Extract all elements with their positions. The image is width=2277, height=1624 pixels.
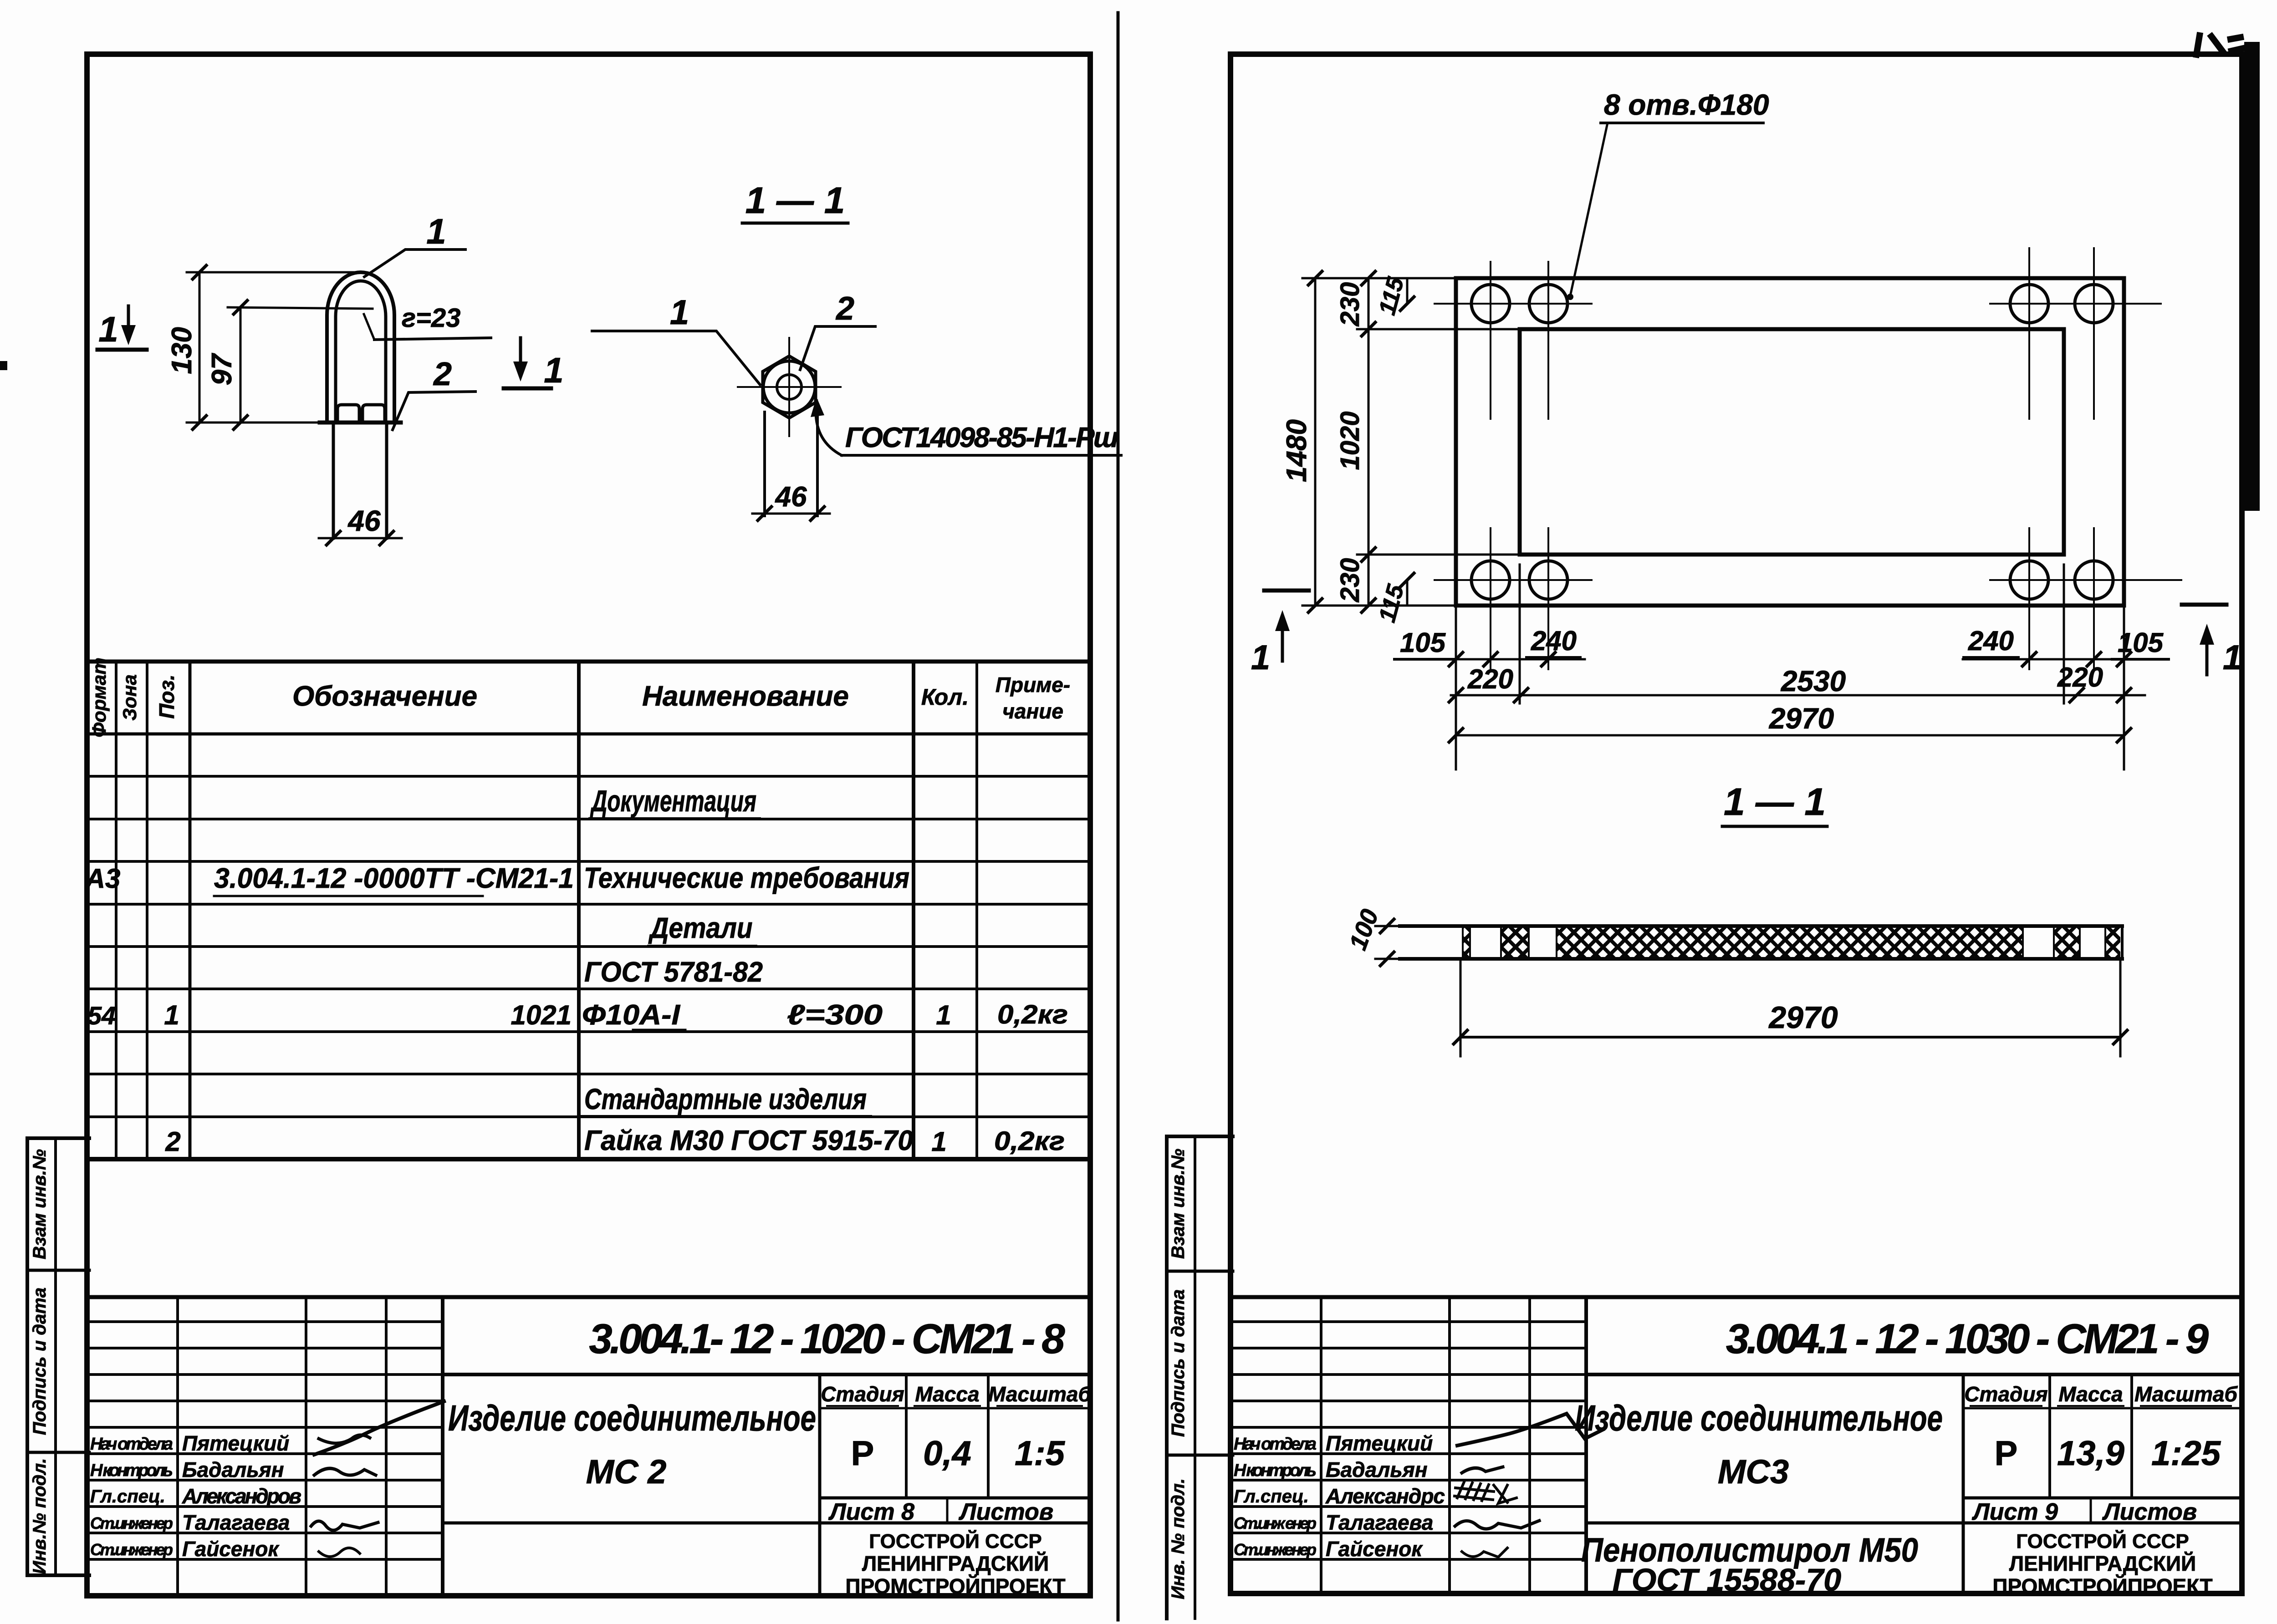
svg-text:Гл.спец.: Гл.спец.: [1234, 1487, 1309, 1507]
svg-text:2970: 2970: [1769, 702, 1834, 735]
svg-text:100: 100: [1344, 906, 1384, 953]
svg-text:Бадальян: Бадальян: [182, 1458, 284, 1481]
svg-text:Ф10А-I: Ф10А-I: [582, 999, 681, 1031]
svg-text:чание: чание: [1002, 699, 1063, 723]
svg-text:97: 97: [206, 353, 238, 385]
title block signature-area row lines: [87, 1322, 443, 1559]
svg-text:3.004.1- 12 - 1020 - СМ21 -: 3.004.1- 12 - 1020 - СМ21 - 8: [589, 1316, 1066, 1362]
svg-text:1: 1: [98, 309, 118, 349]
svg-text:115: 115: [1374, 581, 1409, 625]
nut pos.2 side view inside legs: [337, 405, 359, 423]
leader 1 (section): [592, 331, 760, 385]
svg-text:Лист 8: Лист 8: [828, 1499, 914, 1525]
svg-text:Масштаб: Масштаб: [2134, 1382, 2238, 1406]
svg-text:105: 105: [2118, 627, 2164, 658]
line under list row: [443, 1522, 1090, 1525]
svg-text:Инв. № подл.: Инв. № подл.: [1168, 1478, 1188, 1599]
signature-area row lines: [1230, 1322, 1586, 1559]
svg-text:МС 2: МС 2: [586, 1453, 667, 1491]
svg-text:Гайка М30 ГОСТ 5915-70: Гайка М30 ГОСТ 5915-70: [584, 1125, 913, 1156]
stadia header row bottom: [1963, 1407, 2242, 1410]
svg-text:Зона: Зона: [119, 674, 140, 720]
svg-text:220: 220: [2057, 662, 2103, 692]
part bottom line (thick): [320, 421, 401, 425]
svg-text:Р: Р: [1995, 1434, 2018, 1473]
column line: naimenovanie/kol: [912, 662, 915, 1159]
hole 6: [1529, 561, 1567, 599]
dim row 105/240 left: [1394, 658, 1585, 661]
hole 8: [2075, 561, 2113, 599]
svg-text:Наименование: Наименование: [642, 681, 849, 712]
hole 7: [2010, 561, 2048, 599]
page separator line between scanned sheets: [1117, 13, 1120, 1620]
svg-text:Нач отдела: Нач отдела: [1234, 1435, 1317, 1454]
U-part wire outer contour: [327, 272, 394, 423]
doc number cell bottom line: [443, 1373, 1090, 1376]
svg-text:Инв.№ подл.: Инв.№ подл.: [30, 1458, 50, 1574]
svg-text:Подпись и дата: Подпись и дата: [1168, 1289, 1188, 1437]
page number 175 fragment: [2196, 36, 2243, 55]
svg-text:Листов: Листов: [958, 1499, 1053, 1525]
svg-text:Обозначение: Обозначение: [292, 681, 477, 712]
svg-text:240: 240: [1968, 626, 2014, 656]
title block vertical: signature col: [385, 1297, 388, 1596]
svg-text:46: 46: [347, 504, 381, 537]
svg-text:Документация: Документация: [590, 784, 756, 818]
list row top line: [820, 1497, 1090, 1500]
signature squiggles: [1457, 1414, 1603, 1446]
dimension 46 (front view): [319, 537, 402, 540]
svg-text:0,2кг: 0,2кг: [997, 1000, 1068, 1029]
svg-text:Поз.: Поз.: [155, 674, 179, 718]
svg-text:1: 1: [670, 293, 689, 332]
svg-text:230: 230: [1335, 282, 1365, 327]
svg-text:2: 2: [835, 290, 854, 327]
svg-text:1021: 1021: [511, 1000, 572, 1030]
section mark 1 right (plan): [2182, 603, 2226, 607]
list row divider: [946, 1498, 949, 1523]
svg-text:230: 230: [1335, 558, 1365, 603]
margin block outer lines: [1165, 1136, 1169, 1619]
column line: poz/oboznachenie: [189, 662, 192, 1159]
bottom dim extension lines: [1456, 565, 2124, 769]
svg-text:Взам инв.№: Взам инв.№: [30, 1149, 50, 1259]
spec table header bottom: [87, 733, 1090, 736]
svg-text:Пятецкий: Пятецкий: [182, 1431, 289, 1455]
dimension 115 top: [1406, 278, 1409, 304]
svg-text:Ст.инженер: Ст.инженер: [90, 1540, 173, 1559]
svg-text:240: 240: [1531, 626, 1577, 656]
title block top border: [87, 1295, 1090, 1299]
nut hexagon front view: [763, 356, 816, 418]
svg-text:Детали: Детали: [648, 911, 752, 944]
stadia column lines: [818, 1375, 822, 1596]
section mark 1 right: [504, 387, 551, 391]
svg-text:0,2кг: 0,2кг: [994, 1126, 1065, 1156]
title block verticals: [1320, 1297, 1322, 1593]
svg-text:Технические требования: Технические требования: [584, 861, 909, 894]
list row top line: [1963, 1497, 2242, 1500]
svg-text:г=23: г=23: [402, 303, 460, 333]
dimension 1480: [1314, 278, 1317, 606]
svg-text:3.004.1 - 12 - 1030 - СМ21: 3.004.1 - 12 - 1030 - СМ21 - 9: [1726, 1316, 2209, 1362]
column line: format/zona: [115, 662, 117, 1159]
scan dark band at right page edge: [2244, 42, 2260, 511]
svg-text:220: 220: [1467, 664, 1513, 694]
dimension chain 230/1020/230: [1368, 278, 1370, 606]
dimension 130: [199, 272, 201, 423]
stadia header row bottom: [820, 1407, 1090, 1410]
nut center lines: [788, 338, 790, 436]
scan speck left margin: [0, 361, 7, 370]
svg-text:Приме-: Приме-: [996, 673, 1070, 697]
leader 2 (section): [800, 326, 875, 370]
hole edge ticks in section: [1463, 926, 2105, 959]
svg-text:2530: 2530: [1781, 665, 1846, 697]
svg-text:Александрс: Александрс: [1325, 1484, 1445, 1508]
svg-text:13,9: 13,9: [2057, 1434, 2124, 1473]
svg-text:Пятецкий: Пятецкий: [1326, 1431, 1433, 1455]
svg-text:Гайсенок: Гайсенок: [182, 1537, 280, 1561]
svg-text:1 — 1: 1 — 1: [745, 180, 845, 221]
svg-text:2: 2: [165, 1126, 180, 1157]
svg-text:ГОСТ 15588-70: ГОСТ 15588-70: [1613, 1562, 1841, 1598]
svg-text:3.004.1-12 -0000ТТ -СМ21-1: 3.004.1-12 -0000ТТ -СМ21-1: [214, 863, 574, 894]
dimension 46 (section view): [752, 513, 830, 515]
svg-text:1:25: 1:25: [2151, 1434, 2221, 1473]
leader 1 (to wire): [364, 249, 465, 277]
svg-text:ГОСТ 5781-82: ГОСТ 5781-82: [584, 957, 763, 988]
dim row 220/2530/220: [1451, 694, 2145, 697]
svg-text:1: 1: [931, 1126, 946, 1157]
svg-text:ГОССТРОЙ СССР: ГОССТРОЙ СССР: [869, 1529, 1041, 1553]
svg-text:Ст.инженер: Ст.инженер: [1234, 1540, 1317, 1559]
svg-text:0,4: 0,4: [923, 1434, 971, 1473]
svg-text:Изделие соединительное: Изделие соединительное: [448, 1398, 816, 1438]
svg-text:Масштаб: Масштаб: [988, 1382, 1092, 1406]
spec table row lines: [87, 776, 1090, 1117]
svg-text:Гайсенок: Гайсенок: [1326, 1537, 1423, 1561]
svg-text:46: 46: [775, 481, 807, 513]
signature squiggles: [314, 1401, 444, 1455]
svg-text:ℓ=300: ℓ=300: [787, 999, 883, 1031]
svg-text:Н контроль: Н контроль: [1234, 1461, 1317, 1480]
svg-text:Ст.инженер: Ст.инженер: [90, 1514, 173, 1532]
svg-text:Александров: Александров: [182, 1484, 301, 1508]
section mark 1 left: [97, 348, 147, 352]
svg-text:ЛЕНИНГРАДСКИЙ: ЛЕНИНГРАДСКИЙ: [862, 1552, 1049, 1575]
line under list row: [1586, 1522, 2242, 1525]
column line: oboznachenie/naimenovanie: [577, 662, 581, 1159]
hole 2: [1529, 285, 1567, 323]
dim row 2970: [1456, 734, 2124, 737]
hole 5: [1471, 561, 1510, 599]
svg-text:МС3: МС3: [1718, 1453, 1789, 1491]
svg-text:130: 130: [166, 327, 198, 374]
svg-text:54: 54: [87, 1001, 116, 1030]
plate outer rectangle: [1456, 278, 2124, 606]
svg-text:1 — 1: 1 — 1: [1724, 780, 1826, 823]
svg-text:8 отв.Ф180: 8 отв.Ф180: [1604, 88, 1769, 121]
svg-text:105: 105: [1400, 627, 1446, 658]
svg-text:Стадия: Стадия: [821, 1382, 904, 1406]
dimension 100 (section height): [1375, 925, 1400, 927]
section bar outline: [1400, 924, 2122, 928]
dimension 97: [240, 307, 242, 423]
svg-text:Масса: Масса: [2058, 1382, 2123, 1406]
list row divider: [2090, 1498, 2092, 1523]
svg-text:Р: Р: [851, 1434, 874, 1473]
wire legs below nut (section): [763, 412, 766, 516]
spec table bottom border: [87, 1157, 1090, 1161]
svg-text:Изделие соединительное: Изделие соединительное: [1575, 1398, 1943, 1438]
title block top border: [1230, 1295, 2242, 1299]
hole 1: [1471, 285, 1510, 323]
svg-text:Листов: Листов: [2102, 1499, 2197, 1525]
spec table top border: [87, 660, 1090, 664]
svg-text:Талагаева: Талагаева: [182, 1511, 290, 1534]
U-part wire inner contour: [336, 281, 386, 423]
svg-text:ГОСТ14098-85-Н1-Рш: ГОСТ14098-85-Н1-Рш: [845, 422, 1118, 453]
svg-text:Стандартные изделия: Стандартные изделия: [584, 1083, 867, 1115]
svg-text:ПРОМСТРОЙПРОЕКТ: ПРОМСТРОЙПРОЕКТ: [1992, 1574, 2212, 1598]
hole 3: [2010, 285, 2048, 323]
svg-text:Стадия: Стадия: [1964, 1382, 2047, 1406]
crosshatch fill segments: [1463, 927, 2120, 958]
svg-text:Подпись и дата: Подпись и дата: [30, 1288, 50, 1435]
nut hole circle: [777, 375, 802, 399]
doc number cell bottom line: [1586, 1373, 2242, 1376]
nut outer circle: [763, 361, 815, 413]
title block vertical: date col / doc cell left: [441, 1297, 444, 1596]
section mark 1 left (plan): [1264, 589, 1309, 593]
svg-text:1:5: 1:5: [1015, 1434, 1066, 1473]
svg-text:Талагаева: Талагаева: [1326, 1511, 1433, 1534]
svg-text:1: 1: [2223, 638, 2242, 677]
column line: zona/poz: [146, 662, 148, 1159]
title block vertical: roles col: [176, 1297, 179, 1596]
svg-text:Формат: Формат: [88, 657, 110, 737]
margin block outer lines: [26, 1138, 29, 1575]
svg-text:Взам инв.№: Взам инв.№: [1168, 1149, 1188, 1259]
svg-text:115: 115: [1374, 274, 1409, 318]
svg-text:2970: 2970: [1768, 1000, 1838, 1035]
title block vertical: names col: [305, 1297, 307, 1596]
dimension 2970 (section): [1460, 959, 1462, 1056]
dim row 240/105 right: [1963, 658, 2168, 661]
hole 4: [2075, 285, 2113, 323]
svg-text:1: 1: [936, 1000, 951, 1030]
svg-text:ЛЕНИНГРАДСКИЙ: ЛЕНИНГРАДСКИЙ: [2009, 1552, 2196, 1575]
svg-text:Кол.: Кол.: [921, 684, 969, 710]
svg-text:Нач отдела: Нач отдела: [90, 1435, 173, 1454]
svg-text:Н контроль: Н контроль: [90, 1461, 173, 1480]
leader 2 (to nut): [393, 392, 475, 430]
svg-text:А3: А3: [85, 863, 121, 894]
svg-text:Гл.спец.: Гл.спец.: [90, 1487, 165, 1507]
legs below nut: [332, 423, 335, 538]
svg-text:2: 2: [433, 356, 452, 392]
column line: kol/primechanie: [975, 662, 978, 1159]
svg-text:Ст.инж енер: Ст.инж енер: [1234, 1514, 1317, 1532]
stadia column lines: [1962, 1375, 1965, 1593]
sheet 2 outer frame: [1230, 54, 2242, 1593]
svg-text:Бадальян: Бадальян: [1326, 1458, 1428, 1481]
sheet 1 outer frame: [87, 54, 1090, 1596]
svg-text:1: 1: [1251, 638, 1270, 677]
svg-text:ГОССТРОЙ СССР: ГОССТРОЙ СССР: [2016, 1529, 2189, 1553]
svg-text:1: 1: [164, 1000, 179, 1030]
svg-text:1480: 1480: [1281, 419, 1312, 482]
dimension 115 bottom: [1406, 580, 1409, 606]
svg-text:ПРОМСТРОЙПРОЕКТ: ПРОМСТРОЙПРОЕКТ: [845, 1574, 1065, 1598]
hole center lines vertical top: [1435, 248, 2181, 669]
svg-text:1: 1: [544, 350, 563, 390]
svg-text:1: 1: [426, 211, 446, 251]
svg-text:1020: 1020: [1335, 411, 1365, 470]
svg-text:Лист 9: Лист 9: [1971, 1499, 2058, 1525]
svg-text:Масса: Масса: [915, 1382, 979, 1406]
plate opening inner rectangle: [1520, 329, 2064, 555]
